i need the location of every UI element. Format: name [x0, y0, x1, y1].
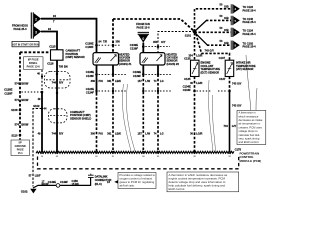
svg-text:PAGE 13-6: PAGE 13-6: [27, 65, 41, 69]
svg-text:PAGE 25-4: PAGE 25-4: [243, 20, 257, 24]
svg-text:361: 361: [107, 131, 112, 135]
svg-text:744: 744: [52, 131, 57, 135]
junction circle on DLC wire: [56, 184, 60, 188]
connector row on wire 380: [86, 87, 127, 95]
svg-text:COOLANT: COOLANT: [201, 64, 214, 68]
HO2S1 sensor box: [93, 53, 119, 65]
fan feed dashed vertical to HO2S1: [112, 19, 114, 53]
svg-text:743 G/Y: 743 G/Y: [205, 48, 215, 52]
svg-text:C138E: C138E: [85, 42, 93, 46]
fan feed dashed wire: [113, 19, 195, 32]
wire 94 from IN2 to CMP sensor: [41, 32, 57, 50]
svg-text:C124F: C124F: [86, 90, 94, 94]
dashed wire to OUT4: [207, 44, 231, 46]
svg-text:P/O: P/O: [99, 131, 103, 135]
svg-text:574: 574: [15, 122, 20, 126]
svg-text:(CMP) SENSOR: (CMP) SENSOR: [66, 55, 85, 59]
svg-text:(HO2S) #2: (HO2S) #2: [167, 62, 180, 66]
note box 3 leader: [246, 55, 251, 113]
note box 2: [167, 172, 239, 192]
box HOT IN START OR RUN: [12, 41, 39, 46]
svg-text:I/P FUSE: I/P FUSE: [28, 58, 39, 62]
svg-text:ENGINE: ENGINE: [201, 60, 211, 64]
shield loop A around CMP wire: [45, 72, 71, 89]
connector triangle OUT2: [231, 16, 240, 25]
PCM pin circles: [41, 151, 231, 153]
svg-text:A thermistor in: A thermistor in: [239, 111, 257, 115]
connector triangle OUT1: [231, 4, 240, 13]
svg-text:creases. PCM uses: creases. PCM uses: [239, 125, 263, 129]
svg-text:R/Y: R/Y: [59, 81, 64, 85]
connector triangle down (fan): [138, 32, 149, 42]
label TO C124 PAGE 25-4: [243, 29, 257, 36]
label FROM FAN PAGE 13-6: [136, 22, 150, 30]
connector triangle OUT3: [231, 28, 240, 37]
fuse feed dashed wire 574 BK/W: [20, 51, 51, 53]
wire 743 G/Y down to PCM: [229, 77, 231, 92]
svg-text:C135: C135: [184, 77, 191, 81]
PCM pin numbers: [41, 156, 232, 158]
svg-text:0: 0: [142, 37, 144, 41]
svg-text:decreases as intake: decreases as intake: [239, 118, 263, 122]
svg-text:calculate fuel deli-: calculate fuel deli-: [239, 133, 261, 137]
svg-text:S108: S108: [11, 108, 18, 112]
connector triangle OUT4: [231, 41, 240, 50]
label CAMSHAFT POSITION (CMP) SENSOR: [66, 48, 85, 59]
HO2S1 connector row C138: [85, 42, 121, 50]
svg-text:G/Y: G/Y: [232, 124, 237, 128]
svg-text:air/fuel ratio.: air/fuel ratio.: [120, 183, 136, 187]
wire 795 from CMP down to PCM: [56, 60, 58, 152]
DLC connector symbol: [88, 174, 94, 178]
junction dot: [41, 91, 44, 94]
svg-text:157: 157: [137, 79, 142, 83]
svg-text:744: 744: [52, 81, 57, 85]
dashed wire to OUT2: [206, 19, 231, 21]
svg-text:HOT IN START OR RUN: HOT IN START OR RUN: [12, 43, 39, 46]
svg-text:PAGE 13-6: PAGE 13-6: [136, 25, 150, 29]
svg-text:SENSOR SHIELD: SENSOR SHIELD: [70, 117, 91, 121]
svg-text:R/Y: R/Y: [59, 131, 64, 135]
svg-text:S101: S101: [185, 34, 192, 38]
splice S107: [41, 75, 43, 77]
svg-text:LB/K: LB/K: [115, 79, 121, 83]
svg-text:O/Y: O/Y: [161, 40, 166, 44]
connector triangle IN1 (from HEGO): [31, 12, 41, 25]
ECT in-line connector row: [183, 85, 211, 93]
I/P fuse panel label box: [24, 57, 44, 70]
svg-text:PAGE 25-4: PAGE 25-4: [243, 32, 257, 36]
svg-text:C124E: C124E: [86, 87, 94, 91]
label TO C102 PAGE 25-4: [243, 42, 257, 49]
label DATA LINK CONNECTOR (DLC): [95, 175, 112, 186]
svg-text:C138F: C138F: [86, 74, 94, 78]
label ENGINE COOLANT TEMPERATURE (ECT) SENSOR: [201, 60, 221, 74]
svg-text:743 G/Y: 743 G/Y: [232, 82, 242, 86]
IAT in-line connector row: [218, 90, 231, 93]
svg-text:O/B: O/B: [224, 41, 229, 45]
label TO C146 PAGE 25-4: [243, 17, 257, 24]
svg-text:C134F: C134F: [183, 88, 191, 92]
svg-text:O/B: O/B: [224, 16, 229, 20]
note box 3: [237, 110, 266, 144]
splice S110 on fuse wire: [19, 134, 22, 137]
splice S108 on fuse wire: [19, 109, 22, 112]
note box 1 leader: [122, 84, 131, 151]
svg-text:POSITION: POSITION: [66, 52, 79, 56]
label HEATED OXYGEN SENSOR (HO2S) #2: [167, 53, 180, 66]
label POWERTRAIN CONTROL MODULE (PCM): [240, 151, 262, 163]
HO2S2 sensor box: [140, 53, 165, 65]
svg-text:P/O: P/O: [99, 79, 103, 83]
wire 94 T/R from IN1 to HO2S1: [41, 19, 97, 53]
svg-text:C128E: C128E: [4, 88, 12, 92]
dashed wire to OUT3: [195, 31, 232, 33]
svg-text:TEMPERATURE: TEMPERATURE: [236, 64, 256, 68]
svg-text:G102: G102: [21, 190, 28, 194]
svg-text:574: 574: [15, 98, 20, 102]
svg-text:POSITION (CMP): POSITION (CMP): [70, 113, 91, 117]
svg-text:LB/K: LB/K: [115, 131, 121, 135]
svg-text:743: 743: [223, 124, 228, 128]
svg-text:(DLC): (DLC): [95, 182, 102, 186]
svg-text:C139E: C139E: [133, 70, 141, 74]
junction on CMP wire: [56, 73, 58, 75]
svg-text:LG: LG: [160, 79, 164, 83]
svg-text:380: 380: [91, 79, 96, 83]
note box 2 leader: [208, 80, 213, 151]
svg-text:C128F: C128F: [4, 91, 12, 95]
splice S101: [185, 30, 197, 38]
svg-text:which resistance: which resistance: [239, 114, 259, 118]
wire 743 to IAT: [196, 34, 230, 60]
svg-text:LB/F: LB/F: [35, 174, 41, 178]
label CMP SENSOR SHIELD: [70, 110, 91, 121]
HO2S2 lower connector row: [133, 70, 171, 78]
svg-text:S110: S110: [11, 133, 18, 137]
svg-text:353: 353: [153, 40, 158, 44]
svg-text:C137: C137: [219, 77, 226, 81]
svg-text:C138E: C138E: [86, 70, 94, 74]
svg-text:T/R: T/R: [103, 39, 107, 43]
svg-text:voltage drops to: voltage drops to: [239, 129, 259, 133]
svg-text:C139F: C139F: [133, 74, 141, 78]
dashed wire to OUT1: [195, 9, 232, 32]
svg-text:LG/R: LG/R: [196, 81, 202, 85]
svg-text:BK/W: BK/W: [21, 122, 28, 126]
svg-text:EGR control.: EGR control.: [169, 187, 186, 191]
svg-text:very, spark timing: very, spark timing: [239, 137, 260, 141]
wire 157 down to PCM: [142, 65, 144, 74]
CMP sensor box U1: [51, 50, 64, 60]
svg-text:MODULE (PCM): MODULE (PCM): [240, 159, 262, 163]
junction on CMP wire: [56, 92, 58, 94]
wire 361 down to PCM: [112, 65, 114, 74]
wire 30 LG/R down to PCM: [194, 77, 196, 153]
svg-text:350: 350: [116, 39, 121, 43]
svg-text:CAMSHAFT: CAMSHAFT: [70, 110, 85, 114]
svg-text:157: 157: [137, 131, 142, 135]
svg-text:air temperature in-: air temperature in-: [239, 122, 261, 126]
svg-text:(HO2S) #1: (HO2S) #1: [119, 62, 132, 66]
ground ref box PAGE 15-1: [11, 140, 30, 156]
svg-text:L/W: L/W: [145, 79, 150, 83]
PCM connector sawtooth C175: [36, 151, 234, 153]
svg-text:INTAKE AIR: INTAKE AIR: [236, 60, 251, 64]
svg-text:15 BK: 15 BK: [72, 182, 79, 186]
connector triangle IN2 (from HEGO): [31, 25, 41, 38]
svg-text:(IAT) SENSOR: (IAT) SENSOR: [236, 67, 254, 71]
svg-text:FROM HEGO: FROM HEGO: [12, 24, 28, 28]
svg-text:C149F: C149F: [60, 180, 68, 184]
label TO C123 PAGE 25-4: [243, 5, 257, 12]
PCM dashed outline: [38, 157, 239, 169]
svg-text:BK/W: BK/W: [21, 81, 28, 85]
HO2S1 lower connector row: [86, 70, 127, 78]
svg-text:361: 361: [107, 79, 112, 83]
svg-text:LG: LG: [160, 131, 164, 135]
wire 49 down to PCM: [41, 92, 43, 152]
svg-text:FROM FAN: FROM FAN: [136, 22, 150, 26]
svg-text:DATALINK: DATALINK: [95, 175, 108, 179]
HO2S2 second connector row: [142, 90, 171, 92]
splice S102 and ground branch: [33, 104, 47, 186]
svg-text:380: 380: [91, 131, 96, 135]
shield loop B: [49, 109, 68, 123]
connector C128E/C128F row: [4, 88, 41, 96]
svg-text:C115: C115: [49, 45, 56, 49]
svg-text:O/B: O/B: [224, 5, 229, 9]
wire from fan triangle: [142, 43, 144, 53]
svg-text:795 BN: 795 BN: [59, 64, 68, 68]
ECT sensor box: [191, 60, 200, 76]
svg-text:LG/R: LG/R: [196, 131, 202, 135]
svg-text:PAGE 25-4: PAGE 25-4: [243, 45, 257, 49]
wire from splice to HO2S2: [158, 32, 195, 53]
wire 574 BK/W vertical: [19, 52, 21, 139]
svg-text:C149E: C149E: [48, 180, 56, 184]
svg-text:CAMSHAFT: CAMSHAFT: [66, 48, 81, 52]
svg-text:PAGE 25-4: PAGE 25-4: [243, 8, 257, 12]
shield drain wire from fuse box: [41, 70, 43, 92]
svg-text:BK/W: BK/W: [21, 98, 28, 102]
svg-text:TEMPERATURE: TEMPERATURE: [201, 67, 221, 71]
label FROM HEGO PAGE 25-3: [12, 24, 28, 32]
svg-text:3: 3: [35, 30, 37, 34]
IAT sensor box: [225, 60, 234, 76]
svg-text:C116: C116: [47, 61, 54, 65]
note box 1: [107, 173, 156, 189]
wire 380 down to PCM: [96, 65, 98, 93]
svg-text:S102: S102: [33, 104, 40, 108]
svg-text:L/W: L/W: [145, 131, 150, 135]
svg-text:C138F: C138F: [85, 45, 93, 49]
wire 74 down to PCM: [157, 65, 159, 74]
label HEATED OXYGEN SENSOR (HO2S) #1: [119, 53, 132, 66]
svg-text:PAGE 25-3: PAGE 25-3: [13, 27, 27, 31]
svg-text:C139E: C139E: [130, 43, 138, 47]
DLC branch wire: [33, 178, 91, 188]
svg-text:2: 2: [35, 18, 37, 22]
svg-text:PANEL: PANEL: [29, 61, 38, 65]
svg-text:C137: C137: [219, 56, 226, 60]
svg-text:C134E: C134E: [183, 85, 191, 89]
HO2S2 upper connector row: [130, 43, 170, 51]
label INTAKE AIR TEMPERATURE (IAT) SENSOR: [236, 60, 256, 71]
svg-text:743 G/Y: 743 G/Y: [232, 103, 242, 107]
svg-text:15-1: 15-1: [18, 152, 24, 155]
svg-text:574: 574: [15, 81, 20, 85]
svg-text:O/B: O/B: [224, 28, 229, 32]
svg-text:(ECT) SENSOR: (ECT) SENSOR: [201, 71, 220, 75]
svg-text:C139F: C139F: [130, 47, 138, 51]
wire 354 to ECT: [194, 33, 196, 60]
svg-text:and EGR control.: and EGR control.: [239, 140, 260, 144]
ground G102: [21, 189, 37, 194]
